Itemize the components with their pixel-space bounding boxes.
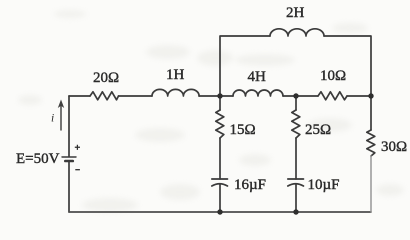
- svg-text:E=50V: E=50V: [16, 151, 60, 167]
- svg-text:15Ω: 15Ω: [230, 122, 256, 138]
- svg-text:25Ω: 25Ω: [305, 122, 331, 138]
- svg-text:2H: 2H: [286, 5, 305, 21]
- svg-text:1H: 1H: [166, 67, 185, 83]
- svg-text:30Ω: 30Ω: [381, 139, 407, 155]
- svg-text:i: i: [51, 113, 54, 125]
- svg-text:20Ω: 20Ω: [93, 70, 119, 86]
- svg-text:10µF: 10µF: [308, 177, 340, 193]
- svg-text:10Ω: 10Ω: [320, 68, 346, 84]
- svg-text:4H: 4H: [248, 69, 267, 85]
- svg-text:16µF: 16µF: [234, 177, 266, 193]
